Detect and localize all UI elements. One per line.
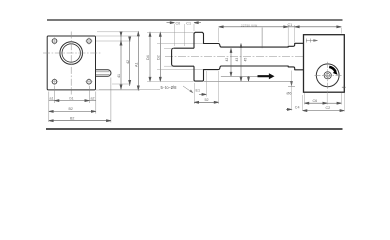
svg-text:Ø6: Ø6 bbox=[287, 92, 292, 96]
svg-text:52: 52 bbox=[205, 98, 209, 102]
svg-text:5-to-Ø8: 5-to-Ø8 bbox=[161, 85, 178, 90]
svg-text:42: 42 bbox=[126, 60, 130, 64]
svg-text:B2: B2 bbox=[69, 107, 73, 111]
svg-text:D4: D4 bbox=[146, 55, 150, 60]
svg-text:41: 41 bbox=[117, 74, 121, 78]
svg-text:43: 43 bbox=[235, 58, 239, 62]
svg-text:b1: b1 bbox=[70, 96, 74, 100]
svg-text:C2: C2 bbox=[326, 106, 331, 110]
svg-text:a1: a1 bbox=[50, 96, 54, 100]
svg-text:22750 V/W: 22750 V/W bbox=[241, 23, 257, 27]
svg-text:E1: E1 bbox=[196, 89, 201, 93]
svg-text:A1: A1 bbox=[135, 62, 139, 67]
svg-text:C1: C1 bbox=[186, 22, 191, 26]
svg-text:B2: B2 bbox=[70, 116, 74, 120]
svg-text:D2: D2 bbox=[157, 55, 161, 60]
svg-text:C4: C4 bbox=[295, 106, 300, 110]
svg-text:42: 42 bbox=[225, 58, 229, 62]
svg-text:C6: C6 bbox=[313, 99, 318, 103]
svg-text:C0: C0 bbox=[176, 22, 181, 26]
svg-text:45: 45 bbox=[244, 58, 248, 62]
svg-text:a2: a2 bbox=[91, 96, 95, 100]
svg-text:C1: C1 bbox=[288, 23, 293, 27]
